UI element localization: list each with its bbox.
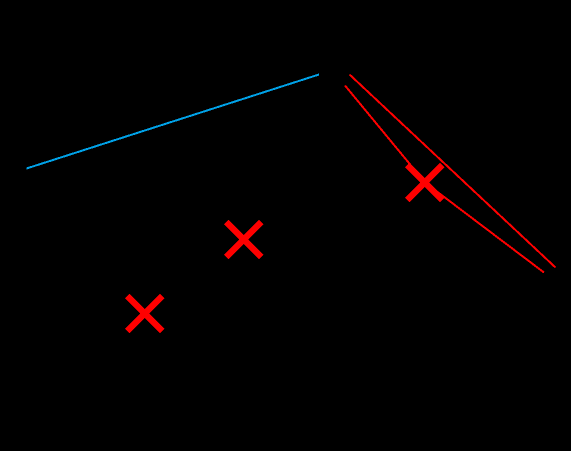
X marker 3 xyxy=(127,296,162,331)
X marker 1 xyxy=(407,165,442,200)
X marker 2 xyxy=(226,222,261,257)
red polyline B xyxy=(345,86,544,273)
blue line xyxy=(27,75,320,169)
red line A xyxy=(350,75,556,268)
